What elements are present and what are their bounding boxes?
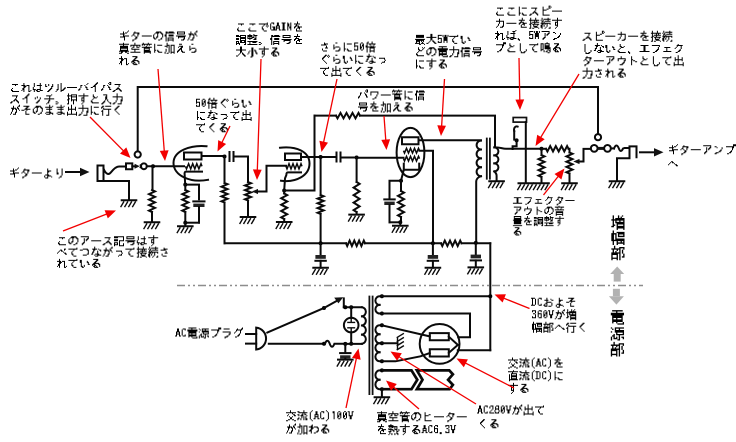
text 5W note (415, 34, 482, 70)
wire grid power tube (341, 157, 404, 159)
ground J3 (609, 181, 625, 188)
text AC to DC note (508, 358, 563, 394)
text effect out note (583, 31, 684, 79)
wire NFB to OPT secondary (360, 116, 495, 147)
wire HV bottom to rectifier (382, 353, 430, 361)
red arrow AC280V (391, 352, 477, 405)
V1 cathode (185, 172, 202, 185)
text guitar signal note (119, 31, 197, 66)
V3 control grid (404, 156, 420, 161)
switch contact box (126, 163, 132, 169)
wire switch to grid node (147, 165, 184, 167)
capacitor C-filter1 (312, 243, 328, 274)
text speaker connect note (495, 6, 562, 54)
pilot lamp (344, 307, 359, 344)
resistor R-series (542, 146, 570, 152)
node V1 plate junction (223, 155, 227, 159)
resistor RL1 plate load (222, 157, 228, 244)
red arrow gain pot (253, 59, 262, 180)
ground V2 cathode (276, 222, 292, 229)
switch contact arrow (132, 164, 140, 169)
resistor Rg3 grid leak (354, 158, 360, 215)
red arrow AC100V (346, 349, 361, 409)
speaker jack J2 (513, 118, 527, 183)
wire HV mid upper (382, 314, 470, 338)
ground heater (374, 389, 390, 404)
bypass output terminal node (595, 134, 601, 140)
V2 plate (285, 154, 335, 161)
ground Rg3 (348, 215, 364, 222)
text true bypass note (10, 82, 123, 116)
red arrow guitar signal (158, 69, 169, 161)
wire secondary to output (494, 147, 541, 148)
resistor R-filter1 (346, 241, 365, 246)
VR2 wiper (573, 149, 591, 164)
red arrow x50 (218, 126, 231, 152)
node rail C3 (474, 241, 478, 245)
text AC plug label (175, 328, 243, 339)
resistor R1 grid leak (149, 166, 155, 222)
node HV lower bottom (380, 359, 384, 363)
V3 screen grid (404, 148, 434, 243)
node rail C2 (431, 241, 435, 245)
node V3 cathode (399, 179, 403, 183)
capacitor C-filter3 (467, 243, 483, 275)
red arrow speaker jack (515, 58, 524, 110)
ground VR2 (561, 183, 577, 190)
gray arrow up (610, 267, 624, 282)
ground V3 cathode (392, 226, 408, 233)
capacitor Ck1 bypass (185, 185, 204, 223)
capacitor C1 coupling (230, 152, 234, 161)
V1 grid (186, 164, 203, 169)
wire NFB top (315, 115, 337, 117)
transformer T1 primary (362, 307, 366, 344)
V1 plate (184, 153, 225, 160)
text AC100V note (286, 410, 354, 434)
text heater note (377, 411, 467, 435)
red arrow effect out wire (536, 74, 580, 146)
VR1 wiper (252, 166, 286, 194)
node switch pivot (322, 306, 326, 310)
resistor Rk2 (281, 191, 287, 222)
red arrow 5W (437, 79, 446, 136)
V4 plate upper (430, 333, 449, 340)
capacitor C-filter2 (425, 243, 441, 274)
ground input jack (121, 200, 137, 207)
label amplifier section (611, 215, 624, 260)
capacitor Ck3 (384, 181, 401, 223)
capacitor C-line (340, 344, 350, 359)
node B+ junction (488, 294, 492, 298)
potentiometer VR2 effect level (567, 153, 573, 183)
T1 heater winding (375, 370, 379, 389)
AC plug (246, 328, 266, 350)
rectifier V4 envelope (420, 324, 460, 364)
red arrow bypass switch (90, 117, 131, 158)
node heater bottom (380, 387, 384, 391)
V4 plate lower (430, 349, 449, 356)
red arrow DC360V (495, 294, 530, 308)
V2 cathode (284, 172, 301, 190)
node line cap (343, 342, 347, 346)
resistor RL2 plate load (318, 157, 324, 243)
section divider line (177, 285, 643, 287)
node V1 cathode (183, 183, 187, 187)
T1 secondary HV lower (375, 325, 379, 361)
capacitor C2 coupling (337, 153, 341, 162)
node effect out (540, 147, 544, 151)
wire B+ rail (225, 242, 491, 244)
wire C1 to volume pot (234, 157, 248, 183)
fuse squiggle (325, 341, 345, 347)
V3 plate (402, 137, 481, 144)
gray arrow down (609, 289, 624, 305)
red arrow earth (63, 210, 116, 231)
red arrow x50 more (319, 79, 337, 152)
text to guitar amp (668, 144, 736, 166)
wire to primary bottom (345, 343, 362, 345)
V4 common join (449, 337, 458, 353)
wire plug to switch (267, 308, 324, 333)
text power tube signal note (358, 90, 425, 113)
transformer T2 primary (476, 141, 481, 243)
resistor Rk3 (398, 181, 404, 223)
node V2 plate junction (319, 155, 323, 159)
text effect volume note (513, 196, 575, 235)
node HV top (380, 294, 384, 298)
resistor R-load (539, 149, 545, 183)
text earth note (57, 235, 168, 268)
transformer T1 core (369, 296, 372, 395)
node center tap (380, 341, 384, 345)
ground R-load (533, 183, 549, 190)
wire feedback to cathode (284, 190, 314, 192)
bypass switch terminal node (135, 151, 141, 157)
wire connector to jack J3 (611, 145, 630, 151)
T1 secondary HV upper (375, 296, 379, 313)
output arrow to guitar amp (640, 148, 664, 156)
node input junction (151, 164, 155, 168)
node fuse left (322, 342, 353, 346)
wire HV top to B+ node (382, 295, 490, 297)
ground R1 (144, 222, 160, 229)
wire top bypass bus (138, 87, 598, 151)
text x50 more note (320, 42, 386, 77)
heater bus ribbon (382, 370, 453, 389)
switch terminal (343, 298, 345, 307)
wire NFB vertical (314, 116, 316, 191)
node HV upper bottom (380, 312, 384, 316)
center tap ground (382, 333, 404, 350)
node HV lower top (380, 323, 384, 327)
node rail C1 (319, 241, 323, 245)
label power section (611, 310, 624, 356)
text guitar-in (10, 168, 63, 179)
red arrow power tube grid (381, 116, 390, 150)
node C2 out (355, 156, 359, 160)
node lamp top (343, 305, 353, 309)
power switch arm (324, 297, 343, 308)
resistor Rk1 (182, 185, 188, 223)
wire plug bottom (269, 343, 323, 345)
triode V2 envelope (280, 147, 310, 181)
wire B+ to power section (489, 243, 491, 350)
ground V1 cathode (177, 226, 193, 233)
connector pair (591, 145, 611, 152)
red arrow heater (386, 381, 419, 410)
wire HV lower to rectifier plate (382, 325, 430, 336)
text AC280V note (477, 405, 544, 429)
pentode V3 envelope (397, 128, 425, 177)
text gain note (236, 22, 302, 58)
transformer T2 core (487, 138, 490, 180)
red arrow effect volume (544, 169, 565, 196)
ground T2 secondary (488, 181, 504, 188)
ground C-line (337, 360, 353, 367)
ground VR1 (240, 217, 256, 224)
ground J2 sleeve (517, 183, 533, 190)
wire V3 cathode bottom (390, 220, 403, 225)
text DC360V note (531, 298, 585, 333)
potentiometer VR1 gain (245, 182, 251, 217)
output jack J3 (617, 146, 637, 180)
resistor R-filter2 (441, 241, 462, 246)
text x50 note (196, 98, 252, 132)
resistor R-NFB (336, 113, 360, 118)
wire rectifier output (458, 349, 491, 351)
input jack J1 (98, 166, 127, 182)
guitar input arrow (66, 168, 90, 176)
node V2 cathode (282, 189, 286, 193)
V3 cathode (401, 164, 419, 181)
wire jack sleeve to ground (104, 181, 130, 200)
red arrow AC-DC (457, 359, 515, 389)
V2 grid (286, 164, 302, 169)
node heater top (380, 368, 384, 372)
wire primary top (344, 306, 362, 308)
node V1 cathode bottom (183, 221, 199, 226)
switch contact ring (140, 163, 147, 169)
transformer T2 secondary (494, 147, 498, 180)
triode V1 envelope (174, 146, 209, 181)
